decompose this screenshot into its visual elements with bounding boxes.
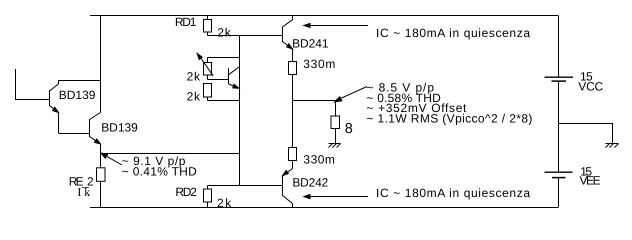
svg-text:VEE: VEE	[580, 174, 601, 188]
annotation text 8.5V block	[366, 80, 532, 125]
svg-text:8: 8	[345, 121, 353, 137]
annotation arrow IC bottom	[304, 195, 368, 199]
transistor Q3 vbe multiplier	[229, 67, 240, 89]
resistor RE_2	[97, 154, 106, 208]
svg-text:330m: 330m	[303, 152, 335, 166]
transistor BD241	[283, 16, 293, 62]
label 15 VEE	[580, 164, 592, 178]
wire upper base wire	[208, 35, 283, 37]
label 330m lower	[303, 152, 335, 166]
label 2k (bias)	[187, 90, 201, 104]
label 1k	[77, 185, 90, 199]
svg-text:BD139: BD139	[59, 88, 96, 102]
transistor Q1 BD139	[50, 81, 59, 134]
svg-text:RD1: RD1	[175, 15, 197, 29]
label 2k (RD1)	[217, 26, 231, 40]
annotation arrow IC top	[304, 23, 368, 27]
label BD139 (Q2)	[101, 121, 138, 135]
label VEE	[580, 174, 601, 188]
label BD242	[292, 175, 328, 189]
annotation text IC top	[376, 26, 530, 40]
wire bias mid node	[208, 79, 229, 81]
label VCC	[578, 79, 603, 93]
label 15 VCC	[580, 69, 593, 83]
battery VEE	[545, 172, 573, 177]
label 2k (trimmer)	[187, 70, 201, 84]
svg-text:IC ~ 180mA in quiescenza: IC ~ 180mA in quiescenza	[376, 186, 530, 200]
wire mid column	[239, 36, 241, 186]
ground load	[329, 144, 341, 148]
svg-text:2k: 2k	[217, 196, 232, 210]
svg-text:BD241: BD241	[292, 36, 329, 50]
label RD1	[175, 15, 197, 29]
wire Q1 collector to rail	[59, 80, 101, 82]
resistor 330m upper	[289, 62, 297, 148]
transistor Q2 BD139	[90, 113, 101, 154]
wire bottom rail	[90, 207, 558, 209]
label 330m upper	[303, 57, 335, 71]
wire right rail	[558, 16, 560, 208]
label RE_2	[69, 175, 94, 189]
annotation text IC bottom	[376, 186, 530, 200]
wire input stub	[16, 69, 50, 100]
label BD139 (Q1)	[59, 88, 96, 102]
annotation text 9.1V p/p	[122, 154, 197, 178]
wire Q1 emitter to Q2 base	[59, 133, 90, 135]
resistor 8 load	[331, 101, 340, 144]
svg-text:RD2: RD2	[175, 185, 197, 199]
label 2k (RD2)	[217, 196, 232, 210]
wire output node left	[101, 153, 240, 155]
svg-text:~ 0.41% THD: ~ 0.41% THD	[122, 165, 197, 179]
svg-text:IC ~ 180mA in quiescenza: IC ~ 180mA in quiescenza	[376, 26, 530, 40]
annotation arrow 8.5V	[334, 87, 367, 102]
svg-text:BD242: BD242	[292, 175, 328, 189]
svg-text:2k: 2k	[187, 70, 201, 84]
wire top rail	[90, 15, 558, 17]
svg-text:2k: 2k	[187, 90, 201, 104]
battery VCC	[545, 77, 574, 81]
svg-text:VCC: VCC	[578, 79, 603, 93]
transistor BD242	[283, 169, 293, 208]
label RD2	[175, 185, 197, 199]
ground right	[606, 144, 619, 148]
wire left vertical rail	[100, 16, 102, 113]
resistor 2k bias	[204, 84, 212, 101]
svg-text:BD139: BD139	[101, 121, 138, 135]
resistor RD2	[204, 186, 212, 208]
wire 2k bottom	[208, 100, 240, 102]
wire pot top	[208, 57, 240, 59]
label BD241	[292, 36, 329, 50]
label 8	[345, 121, 353, 137]
wire output node right	[293, 100, 336, 102]
resistor 330m lower	[289, 148, 297, 169]
resistor RD1	[204, 16, 212, 36]
annotation arrow 9.1V	[101, 153, 122, 165]
svg-text:~ 1.1W RMS (Vpicco^2 / 2*8): ~ 1.1W RMS (Vpicco^2 / 2*8)	[366, 112, 532, 126]
svg-text:2k: 2k	[217, 26, 231, 40]
wire lower base wire	[208, 185, 283, 187]
wire ground branch	[559, 124, 613, 144]
trimmer 2k	[197, 53, 213, 79]
svg-text:Ik: Ik	[77, 185, 90, 199]
svg-text:330m: 330m	[303, 57, 335, 71]
